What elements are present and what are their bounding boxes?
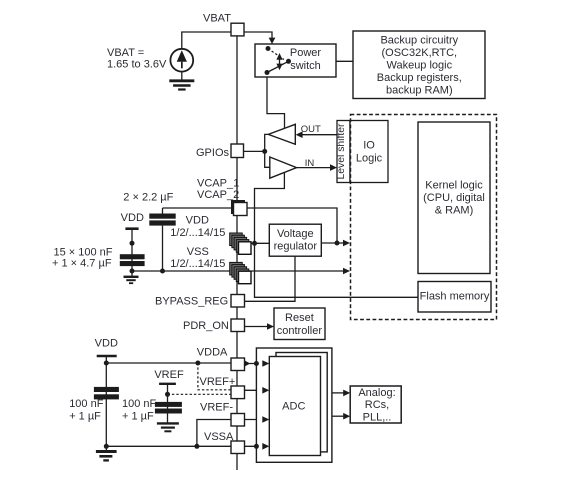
- svg-text:+ 1 µF: + 1 µF: [69, 410, 101, 422]
- svg-text:1/2/...14/15: 1/2/...14/15: [170, 227, 225, 239]
- svg-text:ADC: ADC: [282, 401, 305, 413]
- svg-text:Power: Power: [290, 47, 322, 59]
- svg-text:BYPASS_REG: BYPASS_REG: [155, 296, 228, 308]
- svg-text:VDDA: VDDA: [197, 347, 228, 359]
- svg-text:VSS: VSS: [187, 246, 209, 258]
- svg-text:PDR_ON: PDR_ON: [183, 320, 229, 332]
- svg-text:regulator: regulator: [274, 240, 318, 252]
- svg-text:(OSC32K,RTC,: (OSC32K,RTC,: [382, 47, 458, 59]
- svg-text:Flash memory: Flash memory: [420, 290, 490, 302]
- svg-text:VBAT =: VBAT =: [107, 47, 144, 59]
- svg-text:GPIOs: GPIOs: [196, 147, 230, 159]
- svg-text:VBAT: VBAT: [203, 13, 231, 25]
- svg-text:+ 1 µF: + 1 µF: [122, 410, 154, 422]
- svg-text:Level shifter: Level shifter: [336, 123, 347, 180]
- svg-text:100 nF: 100 nF: [69, 398, 104, 410]
- svg-text:Kernel logic: Kernel logic: [425, 179, 483, 191]
- svg-text:backup RAM): backup RAM): [386, 84, 453, 96]
- svg-text:RCs,: RCs,: [365, 399, 389, 411]
- svg-text:VDD: VDD: [95, 338, 118, 350]
- svg-text:Voltage: Voltage: [277, 228, 314, 240]
- svg-text:(CPU, digital: (CPU, digital: [423, 192, 485, 204]
- svg-text:1/2/...14/15: 1/2/...14/15: [170, 258, 225, 270]
- svg-text:VCAP_1: VCAP_1: [197, 178, 239, 190]
- svg-text:OUT: OUT: [301, 124, 321, 135]
- svg-text:IO: IO: [363, 140, 375, 152]
- svg-text:IN: IN: [305, 158, 315, 169]
- svg-text:switch: switch: [290, 60, 321, 72]
- svg-text:VDD: VDD: [186, 214, 209, 226]
- svg-text:controller: controller: [277, 325, 323, 337]
- svg-text:VREF-: VREF-: [200, 402, 233, 414]
- svg-text:1.65 to 3.6V: 1.65 to 3.6V: [107, 59, 167, 71]
- svg-text:2 × 2.2 µF: 2 × 2.2 µF: [123, 191, 173, 203]
- svg-text:& RAM): & RAM): [435, 205, 474, 217]
- svg-text:VREF: VREF: [154, 369, 184, 381]
- svg-text:100 nF: 100 nF: [122, 398, 157, 410]
- svg-text:VSSA: VSSA: [204, 431, 234, 443]
- svg-text:Backup registers,: Backup registers,: [377, 72, 462, 84]
- svg-text:VREF+: VREF+: [200, 376, 236, 388]
- svg-text:PLL,..: PLL,..: [363, 411, 392, 423]
- svg-text:Backup circuitry: Backup circuitry: [380, 34, 458, 46]
- svg-text:VCAP_2: VCAP_2: [197, 189, 239, 201]
- svg-text:+ 1 × 4.7 µF: + 1 × 4.7 µF: [52, 257, 112, 269]
- svg-text:Wakeup logic: Wakeup logic: [386, 59, 452, 71]
- svg-text:Reset: Reset: [285, 312, 314, 324]
- svg-text:Analog:: Analog:: [358, 387, 395, 399]
- svg-text:Logic: Logic: [356, 153, 383, 165]
- svg-text:VDD: VDD: [121, 212, 144, 224]
